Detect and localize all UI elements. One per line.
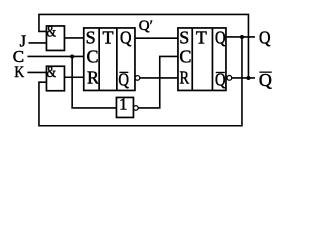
svg-text:Q: Q xyxy=(259,70,272,90)
U2 Q-bar bubble xyxy=(227,75,232,80)
wire master Q-bar to slave R xyxy=(140,77,178,79)
wire gate1 output to S xyxy=(64,37,83,39)
svg-text:Q′: Q′ xyxy=(139,18,153,34)
junction dot Q-bar feedback xyxy=(246,76,250,80)
svg-text:S: S xyxy=(86,27,96,47)
wire top feedback (Q-bar to J gate) xyxy=(39,14,249,77)
svg-text:Q: Q xyxy=(215,27,226,47)
wire Q' (master Q to slave S) xyxy=(135,37,178,39)
overline of output Q-bar xyxy=(259,71,271,73)
wire C to inverter xyxy=(72,56,116,107)
U2 divider T|Q xyxy=(211,28,213,90)
svg-text:Q: Q xyxy=(120,27,132,47)
SR latch U2 (slave) box xyxy=(178,28,226,90)
U2 divider S|T xyxy=(191,28,193,90)
inverter bubble xyxy=(134,106,139,111)
and gate G1 box xyxy=(46,26,64,51)
inverter box xyxy=(116,97,133,117)
svg-text:1: 1 xyxy=(119,95,127,114)
wire C input xyxy=(27,55,83,57)
U1 divider S|T xyxy=(98,28,100,90)
svg-text:C: C xyxy=(86,46,98,66)
and gate G2 box xyxy=(46,66,64,91)
wire slave Q output xyxy=(226,36,255,38)
svg-text:&: & xyxy=(46,64,56,81)
svg-text:C: C xyxy=(179,46,191,66)
svg-text:C: C xyxy=(13,47,24,66)
svg-text:T: T xyxy=(196,27,207,47)
U1 Q-bar bubble xyxy=(135,76,140,81)
overline of U1 Q-bar xyxy=(119,71,128,73)
svg-text:K: K xyxy=(14,64,24,81)
svg-text:&: & xyxy=(46,24,56,41)
U1 divider T|Q xyxy=(116,28,118,90)
junction dot C xyxy=(70,54,74,58)
svg-text:T: T xyxy=(102,27,113,47)
wire bottom feedback (Q to K gate) xyxy=(39,37,242,126)
junction dot Q feedback xyxy=(240,35,244,39)
wire J input xyxy=(28,42,46,44)
svg-text:R: R xyxy=(179,67,189,87)
wire slave Q-bar output xyxy=(232,77,255,79)
svg-text:S: S xyxy=(179,27,189,47)
wire inverter output to slave C xyxy=(138,56,178,107)
svg-text:Q: Q xyxy=(259,27,271,47)
wire K input xyxy=(27,71,46,73)
wire gate2 output to R xyxy=(64,76,83,78)
overline of U2 Q-bar xyxy=(216,71,225,73)
svg-text:R: R xyxy=(87,67,99,87)
SR latch U1 (master) box xyxy=(84,28,135,90)
